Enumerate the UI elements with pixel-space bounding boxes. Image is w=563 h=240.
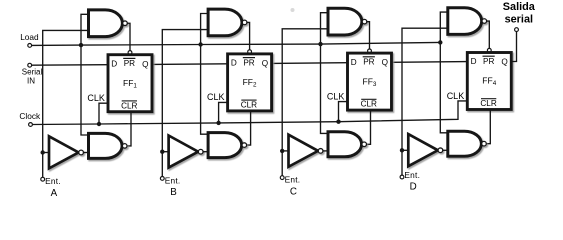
svg-text:PR: PR [124,59,135,68]
wire Q2 to D3 [272,62,348,65]
NAND gate top stage D (preset) [448,8,487,35]
svg-text:Ent.: Ent. [404,170,420,180]
junction clock line stage C [336,120,340,124]
svg-text:CLR: CLR [241,101,257,110]
svg-text:A: A [51,188,58,199]
wire bottom NAND output to CLR2 [247,111,251,145]
svg-text:Serial: Serial [22,68,43,77]
svg-text:PR: PR [363,58,374,67]
terminal Clock input [29,123,33,127]
D flip-flop FF3 [348,53,392,110]
inverter (NOT gate) stage A [49,136,83,168]
wire rail to inverter stage D [402,149,409,151]
PR bubble FF2 [248,50,252,54]
NAND gate top stage C (preset) [328,8,367,35]
svg-text:CLK: CLK [447,91,465,101]
NAND gate top stage B (preset) [208,9,247,36]
terminal Serial IN [28,63,32,67]
svg-text:Q: Q [501,58,507,67]
svg-text:CLK: CLK [207,92,225,102]
inverter (NOT gate) stage D [408,134,442,166]
svg-text:Ent.: Ent. [285,175,301,185]
svg-text:C: C [290,186,297,197]
wire Load branch stage C (to both NAND inputs) [321,13,330,134]
wire Ent.B rail to top NAND input [162,30,209,177]
junction rail/inverter input stage D [400,148,404,152]
junction Load line stage A [79,43,83,47]
svg-text:Clock: Clock [19,111,41,121]
inverter (NOT gate) stage B [169,136,203,168]
svg-text:serial: serial [505,14,533,26]
wire Load line [32,42,441,45]
wire Ent.C rail to top NAND input [282,29,329,176]
junction Load line stage D [438,40,442,44]
junction rail/inverter input stage B [160,150,164,154]
NAND gate top stage A (preset) [89,10,128,37]
wire bottom NAND output to CLR1 [127,112,131,146]
wire rail to inverter stage B [162,151,169,153]
junction rail/inverter input stage C [280,149,284,153]
svg-text:PR: PR [243,58,254,67]
PR bubble FF3 [368,49,372,53]
svg-text:Salida: Salida [503,1,536,13]
svg-text:Q: Q [262,59,268,68]
wire Q3 to D4 [392,61,468,64]
wire bottom NAND output to CLR4 [486,110,490,144]
svg-text:D: D [471,57,477,66]
svg-text:D: D [111,59,117,68]
wire inverter to bottom NAND stage A [83,152,89,154]
wire inverter to bottom NAND stage C [323,150,329,152]
wire clock tap to FF2 CLK [219,102,228,123]
wire Load branch stage A (to both NAND inputs) [81,14,90,135]
wire Ent.A rail to top NAND input [43,30,90,177]
terminal Ent. D [400,175,404,179]
wire clock tap to FF1 CLK [99,103,108,124]
wire bottom NAND output to CLR3 [367,110,371,144]
NAND gate bottom stage D (clear) [448,131,487,156]
svg-text:CLR: CLR [121,101,137,110]
svg-text:D: D [410,182,417,193]
NAND gate bottom stage C (clear) [328,132,367,157]
wire inverter to bottom NAND stage B [203,151,209,153]
wire top NAND output to PR3 [367,22,370,49]
terminal Ent. C [280,176,284,180]
junction clock line stage B [216,121,220,125]
wire Q4 to Salida serial terminal [511,31,516,61]
svg-text:D: D [351,58,357,67]
svg-text:Q: Q [142,60,148,69]
junction rail/inverter input stage A [41,150,45,154]
wire rail to inverter stage C [282,150,289,152]
svg-text:D: D [231,59,237,68]
svg-text:Ent.: Ent. [45,176,61,186]
wire clock tap to FF3 CLK [339,102,348,122]
terminal Ent. B [160,177,164,181]
wire top NAND output to PR2 [247,22,250,49]
svg-text:CLK: CLK [87,93,105,103]
NAND gate bottom stage B (clear) [208,133,247,158]
wire rail to inverter stage A [43,152,50,154]
wire inverter to bottom NAND stage D [443,149,449,151]
D flip-flop FF1 [108,55,152,112]
PR bubble FF4 [487,48,491,52]
NAND gate bottom stage A (clear) [89,133,127,158]
wire serial input to FF1 D [32,64,108,67]
svg-text:Ent.: Ent. [165,175,181,185]
wire top NAND output to PR4 [487,21,490,48]
svg-text:Q: Q [382,58,388,67]
junction clock line stage A [97,122,101,126]
wire clock distribution line [32,101,467,125]
wire Ent.D rail to top NAND input [402,28,449,175]
svg-text:B: B [170,187,177,198]
wire Load branch stage D (to both NAND inputs) [440,12,449,133]
svg-text:PR: PR [483,57,494,66]
junction Load line stage B [198,42,202,46]
wire top NAND output to PR1 [127,23,130,50]
svg-text:IN: IN [27,77,35,86]
svg-text:Load: Load [20,32,39,42]
wire Q1 to D2 [152,63,228,66]
D flip-flop FF4 [467,53,511,110]
junction Load line stage C [318,42,322,46]
svg-text:CLK: CLK [327,91,345,101]
terminal Load input [28,44,32,48]
terminal Salida serial [515,28,519,32]
inverter (NOT gate) stage C [289,135,323,167]
wire Load branch stage B (to both NAND inputs) [201,14,210,135]
svg-text:CLR: CLR [480,99,496,108]
PR bubble FF1 [128,51,132,55]
D flip-flop FF2 [228,54,272,111]
terminal Ent. A [41,177,45,181]
svg-text:CLR: CLR [361,100,377,109]
